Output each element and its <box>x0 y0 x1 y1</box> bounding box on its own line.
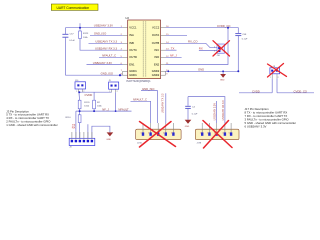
svg-text:1: 1 <box>214 46 215 48</box>
svg-text:GND_ISO: GND_ISO <box>142 87 154 91</box>
svg-text:INB: INB <box>129 41 134 45</box>
svg-text:INC: INC <box>155 48 160 52</box>
svg-text:5: 5 <box>171 132 172 134</box>
svg-text:GND1: GND1 <box>129 69 137 73</box>
svg-text:GND1: GND1 <box>129 73 137 77</box>
svg-text:NFAULT_C: NFAULT_C <box>102 54 116 58</box>
svg-text:USB2ANY 3.3V: USB2ANY 3.3V <box>214 103 217 121</box>
svg-text:1 GND - shared GND with microc: 1 GND - shared GND with microcontroller <box>6 123 58 127</box>
svg-text:OUTC: OUTC <box>129 48 137 52</box>
svg-text:RX_CO: RX_CO <box>188 39 197 43</box>
svg-text:OUTD: OUTD <box>129 55 137 59</box>
svg-text:6 USB2ANY 3.3V: 6 USB2ANY 3.3V <box>245 125 267 129</box>
svg-text:EN1: EN1 <box>129 62 135 66</box>
svg-text:USB2ANY 3.3V: USB2ANY 3.3V <box>93 61 112 65</box>
svg-text:IND: IND <box>155 55 160 59</box>
svg-text:UART Communication: UART Communication <box>57 6 90 10</box>
svg-text:0.1uF: 0.1uF <box>69 40 75 42</box>
svg-text:USB2ANY RX 3.3: USB2ANY RX 3.3 <box>222 100 225 121</box>
svg-text:GND: GND <box>185 126 190 128</box>
svg-text:0.1uF: 0.1uF <box>242 38 248 40</box>
svg-text:R110: R110 <box>66 117 72 119</box>
svg-text:OUTA: OUTA <box>152 33 159 37</box>
svg-text:J17A: J17A <box>137 141 142 144</box>
svg-text:GND2: GND2 <box>152 69 160 73</box>
svg-text:ISO7742FQDWRQ1: ISO7742FQDWRQ1 <box>126 79 151 83</box>
svg-text:RX: RX <box>72 126 76 130</box>
svg-text:CVDD: CVDD <box>85 93 93 97</box>
svg-text:2: 2 <box>278 77 279 79</box>
svg-text:1: 1 <box>141 132 142 134</box>
svg-text:1: 1 <box>270 77 271 79</box>
svg-text:U2: U2 <box>125 16 129 20</box>
svg-text:NF_J: NF_J <box>102 107 109 111</box>
svg-text:2: 2 <box>214 50 215 52</box>
svg-text:J17B: J17B <box>197 142 202 144</box>
svg-text:CVDD_CO: CVDD_CO <box>217 24 230 28</box>
svg-text:2: 2 <box>207 132 208 134</box>
svg-text:TX: TX <box>171 47 175 51</box>
svg-text:NFAULT: NFAULT <box>118 107 129 111</box>
svg-text:GND: GND <box>106 139 111 141</box>
svg-text:R123: R123 <box>83 33 89 35</box>
svg-text:OUTB: OUTB <box>152 41 160 45</box>
svg-text:USB2ANY TX 3.3: USB2ANY TX 3.3 <box>95 40 117 44</box>
svg-text:0.1uF: 0.1uF <box>192 113 198 115</box>
svg-text:5: 5 <box>229 132 230 134</box>
svg-text:1: 1 <box>200 132 201 134</box>
svg-text:NF_J: NF_J <box>170 54 177 58</box>
svg-text:4: 4 <box>163 132 164 134</box>
svg-text:EN2: EN2 <box>154 62 160 66</box>
svg-text:USB2ANY 3.3V: USB2ANY 3.3V <box>94 24 113 28</box>
svg-text:GND2: GND2 <box>152 73 160 77</box>
svg-text:VCC1: VCC1 <box>129 26 137 30</box>
svg-text:INA: INA <box>129 33 134 37</box>
svg-text:RX: RX <box>199 46 203 50</box>
svg-text:3: 3 <box>214 132 215 134</box>
svg-text:2: 2 <box>148 132 149 134</box>
svg-text:4: 4 <box>222 132 223 134</box>
svg-text:CVDD: CVDD <box>252 89 260 93</box>
svg-text:GND: GND <box>198 68 204 72</box>
svg-text:GND_ISO: GND_ISO <box>101 72 113 76</box>
svg-text:NFAULT_C: NFAULT_C <box>133 98 147 102</box>
svg-text:1: 1 <box>76 91 77 93</box>
svg-text:CVDD_CO: CVDD_CO <box>294 89 307 93</box>
svg-text:USB2ANY RX 3.3: USB2ANY RX 3.3 <box>95 47 117 51</box>
svg-text:GND: GND <box>220 80 225 82</box>
svg-text:GND_ISO: GND_ISO <box>94 32 106 36</box>
svg-text:VCC2: VCC2 <box>152 26 160 30</box>
svg-text:2: 2 <box>117 91 118 93</box>
svg-text:R120: R120 <box>84 102 90 104</box>
svg-text:USB2ANY TX 3.3: USB2ANY TX 3.3 <box>162 93 165 113</box>
